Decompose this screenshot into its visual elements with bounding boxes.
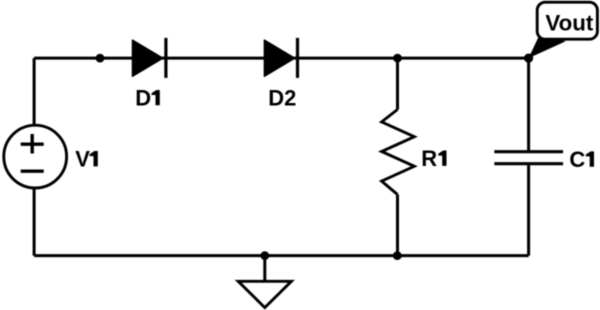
wire left vertical upper: [33, 58, 36, 126]
svg-text:V: V: [75, 147, 90, 172]
node junction dot bottom R1: [393, 251, 402, 260]
node junction dot top R1: [393, 54, 402, 63]
svg-text:Vout: Vout: [545, 11, 593, 36]
svg-text:R: R: [421, 146, 437, 171]
diode D1: [133, 38, 166, 111]
wire top horizontal: [34, 57, 528, 60]
wire C1 branch lower: [527, 165, 530, 256]
node junction dot bottom ground: [260, 251, 269, 260]
wire R1 branch upper: [396, 58, 399, 109]
wire ground stub: [263, 256, 266, 281]
svg-text:D2: D2: [268, 86, 296, 111]
wire C1 branch upper: [527, 58, 530, 150]
svg-text:D: D: [135, 86, 151, 111]
capacitor C1: [494, 152, 563, 164]
svg-text:C: C: [569, 147, 585, 172]
wire left vertical lower: [33, 187, 36, 256]
voltage source V1: [4, 125, 98, 188]
diode D2: [264, 38, 297, 111]
ground: [238, 281, 291, 307]
Vout label callout: [529, 2, 598, 58]
node Vout junction dot: [524, 54, 533, 63]
node junction dot top-left: [96, 54, 105, 63]
wire bottom horizontal: [34, 254, 528, 257]
resistor R1: [382, 110, 447, 195]
wire R1 branch lower: [396, 195, 399, 256]
